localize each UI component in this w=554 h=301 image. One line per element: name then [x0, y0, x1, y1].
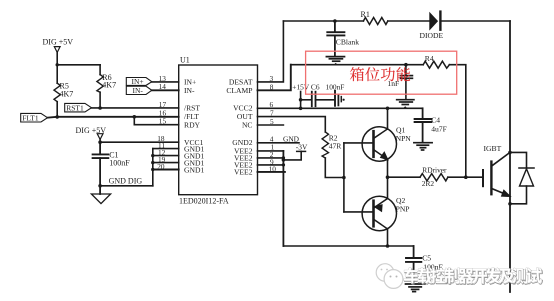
- wire RDY branch to pin15: [134, 117, 178, 125]
- wire Q2 collector down: [387, 229, 389, 246]
- svg-text:IN+: IN+: [132, 77, 144, 86]
- svg-text:15: 15: [159, 117, 167, 126]
- node junction 1nF tap: [404, 63, 408, 67]
- wire collector emitter rail: [509, 21, 511, 292]
- node junction R5 bottom on FLT line: [55, 115, 59, 119]
- wire RDriver to IGBT gate: [448, 176, 483, 178]
- svg-text:C5: C5: [422, 253, 431, 262]
- wire pin2 VEE2 stub: [258, 157, 284, 159]
- wire IN+ to pin13: [152, 81, 179, 83]
- wire FLT1 to /FLT pin16: [48, 116, 179, 119]
- pin numbers right: [269, 74, 277, 173]
- resistor RDriver: [420, 174, 448, 181]
- port RST1: [65, 103, 92, 112]
- wire RST1 to /RST pin17: [92, 107, 179, 109]
- ground under C5: [406, 284, 425, 292]
- wire GND1 pins bus to C1 ground: [100, 185, 153, 187]
- wire VEE bottom rail: [283, 245, 413, 247]
- svg-text:4K7: 4K7: [60, 89, 74, 98]
- node junction +15V label stem: [299, 107, 303, 111]
- capacitor C5: [406, 246, 421, 284]
- node junction RDY tap on FLT line: [133, 115, 137, 119]
- pin numbers left: [157, 74, 166, 171]
- svg-text:14: 14: [159, 82, 167, 91]
- node junction diode branch top: [508, 151, 512, 155]
- wire base rail: [343, 143, 345, 212]
- resistor R5: [54, 83, 60, 102]
- wire Q1 base lead: [344, 142, 372, 144]
- svg-text:20: 20: [157, 162, 165, 171]
- wire pin5 NC stub: [258, 124, 284, 126]
- capacitor C1: [93, 142, 109, 194]
- wire VCC1 to pin18: [100, 141, 179, 143]
- wire pin6 VCC2 +15V rail: [258, 107, 423, 109]
- wire diode to collector rail: [442, 20, 511, 22]
- svg-text:RDY: RDY: [184, 121, 201, 130]
- resistor R4: [423, 61, 449, 68]
- port IN-: [126, 86, 152, 94]
- port FLT1: [21, 113, 48, 122]
- capacitor CBlank: [327, 21, 344, 56]
- svg-text:1ED020I12-FA: 1ED020I12-FA: [179, 197, 229, 206]
- svg-text:-3V: -3V: [296, 142, 308, 151]
- svg-text:DIG +5V: DIG +5V: [76, 126, 107, 135]
- capacitor 1nF: [401, 65, 413, 100]
- ground GND DIG triangle: [91, 194, 110, 204]
- wire +15V stem: [300, 92, 302, 109]
- svg-text:4K7: 4K7: [102, 81, 116, 90]
- wire freewheel diode branch: [510, 152, 527, 168]
- transistor Q2: [362, 196, 396, 230]
- svg-text:GND DIG: GND DIG: [109, 177, 143, 186]
- diode DIODE: [430, 12, 441, 30]
- svg-text:U1: U1: [180, 56, 190, 65]
- svg-text:GND1: GND1: [184, 165, 204, 174]
- node 1nF ground apex on +15V rail: [403, 106, 407, 108]
- node junction R2 to base rail: [342, 176, 346, 180]
- power -3V symbol: [283, 151, 305, 160]
- svg-text:VEE2: VEE2: [234, 167, 253, 176]
- annotation red box: [306, 51, 457, 94]
- svg-text:R1: R1: [361, 10, 370, 19]
- capacitor C6: [301, 92, 335, 107]
- svg-text:C4: C4: [431, 116, 440, 125]
- node junction pin9: [282, 163, 285, 166]
- wire pin10 VEE2 stub: [258, 171, 285, 173]
- power DIG +5V (VCC1): [97, 134, 103, 143]
- watermark logo circles: [376, 264, 403, 289]
- wire R2 bottom to base rail: [325, 158, 344, 178]
- wire Q1 collector up: [387, 108, 389, 129]
- wire pin4 GND2 stub: [258, 142, 300, 144]
- wire Q2 base lead: [344, 211, 372, 213]
- svg-text:4u7F: 4u7F: [431, 125, 447, 134]
- svg-text:2R2: 2R2: [422, 179, 435, 188]
- wire gate line to RDriver: [388, 176, 421, 178]
- svg-text:IGBT: IGBT: [484, 144, 502, 153]
- wire GND1 bus vertical: [152, 149, 154, 186]
- svg-text:IN-: IN-: [184, 86, 195, 95]
- ground under CBlank: [326, 57, 344, 62]
- wire Q1 emitter to Q2 emitter: [387, 160, 389, 198]
- svg-text:100nF: 100nF: [109, 158, 130, 167]
- ground under C4: [414, 143, 432, 150]
- wire IN- to pin14: [152, 89, 179, 91]
- node junction -3V tap: [282, 158, 286, 162]
- node CBlank ground apex on clamp wire: [334, 63, 338, 65]
- node junction pin19: [151, 161, 154, 164]
- wire pin1 VEE2 stub: [258, 150, 284, 152]
- node junction pin2: [282, 156, 285, 159]
- node junction R6 bottom on RST line: [98, 106, 102, 110]
- node junction at R5 top: [56, 63, 59, 66]
- wire pin8 CLAMP stub up: [258, 65, 291, 91]
- wire freewheel diode return: [510, 186, 527, 204]
- wire pin7 OUT to R2: [258, 117, 326, 132]
- node junction emitters on gate line: [386, 175, 390, 179]
- svg-text:PNP: PNP: [396, 205, 410, 214]
- wire R4 to clamp drop: [449, 65, 465, 178]
- node junction Q1 collector: [386, 107, 390, 111]
- pin names left side: [184, 78, 204, 175]
- watermark text: [405, 268, 543, 284]
- wire R5 top lead: [56, 65, 58, 83]
- node junction GND DIG tap: [98, 184, 102, 188]
- node junction diode branch bottom: [508, 202, 512, 206]
- svg-text:DIODE: DIODE: [420, 31, 444, 40]
- svg-text:NC: NC: [242, 121, 253, 130]
- capacitor C7 100nF: [335, 91, 341, 106]
- svg-text:R4: R4: [425, 54, 434, 63]
- node junction Q2 collector on rail: [386, 244, 390, 248]
- resistor R2: [322, 132, 328, 158]
- wire R5 bottom lead: [56, 102, 58, 117]
- svg-text:CLAMP: CLAMP: [226, 86, 252, 95]
- transistor IGBT: [483, 152, 510, 196]
- node junction pin20: [151, 168, 154, 171]
- power DIG +5V (top left): [54, 47, 60, 65]
- svg-text:FLT1: FLT1: [22, 114, 39, 123]
- svg-text:CBlank: CBlank: [336, 38, 359, 47]
- wire CLAMP run to R4: [291, 64, 423, 66]
- node 100nF plus mark: [343, 99, 345, 101]
- svg-text:RDriver: RDriver: [422, 166, 447, 175]
- annotation red text 箱位功能: [350, 67, 410, 81]
- wire R6 bottom lead: [99, 92, 101, 108]
- node junction C6 branch: [299, 98, 303, 102]
- wire VEE2 bus down to rail: [282, 151, 284, 246]
- svg-text:NPN: NPN: [396, 134, 412, 143]
- resistor R1: [363, 18, 387, 25]
- capacitor C4: [415, 108, 432, 142]
- wire pin3 DESAT stub up: [258, 21, 284, 82]
- svg-text:RST1: RST1: [66, 104, 84, 113]
- svg-text:47R: 47R: [329, 141, 343, 150]
- wire pin9 VEE2 stub: [258, 164, 284, 166]
- node junction VCC1/C1: [98, 140, 102, 144]
- wire pin19 stub: [153, 162, 179, 164]
- wire +5V rail to R5/R6 tops: [57, 64, 100, 66]
- port IN+: [126, 78, 152, 86]
- pin names right side: [226, 78, 253, 177]
- ground under 1nF: [397, 100, 414, 105]
- svg-text:IN-: IN-: [133, 86, 144, 95]
- node junction CBlank tap: [333, 19, 337, 23]
- node junction pin12: [151, 154, 154, 157]
- svg-text:DIG +5V: DIG +5V: [43, 38, 74, 47]
- wire R1 to diode: [388, 20, 430, 22]
- wire DESAT top run to R1: [283, 20, 363, 22]
- op-amp U1 gate driver IC body: [179, 65, 258, 195]
- wire pin20 stub: [153, 169, 179, 171]
- transistor Q1: [362, 127, 396, 161]
- wire pin12 stub: [153, 155, 179, 157]
- resistor R6: [97, 75, 103, 93]
- node junction clamp drop on gate line: [464, 175, 468, 179]
- wire R6 top lead: [99, 65, 101, 75]
- diode freewheel: [519, 168, 534, 186]
- wire pin11 stub: [153, 148, 179, 150]
